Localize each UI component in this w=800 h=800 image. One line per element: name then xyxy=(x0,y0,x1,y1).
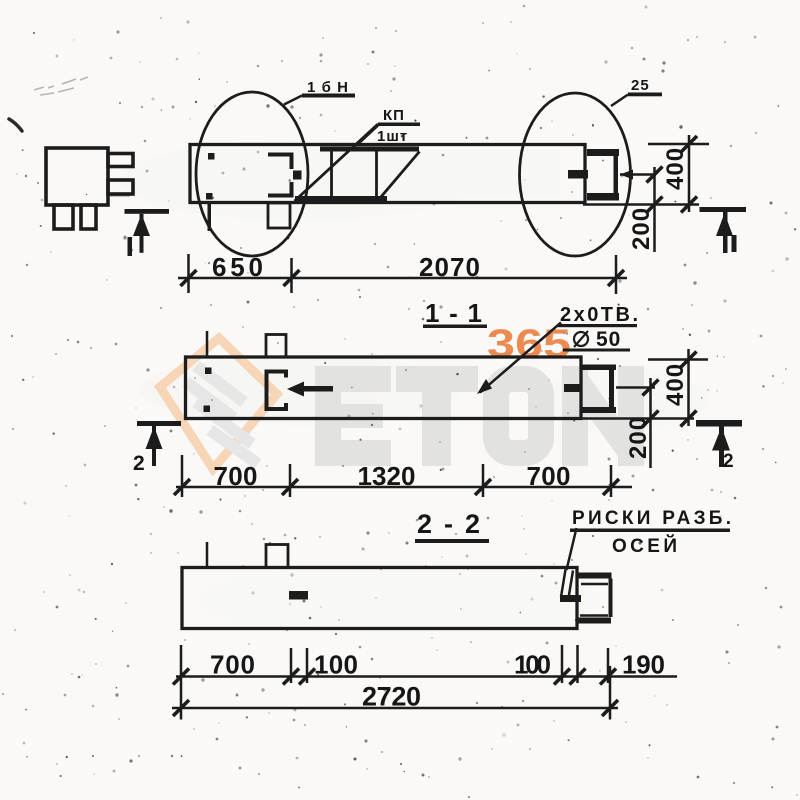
plan view: KP console plate xyxy=(295,147,420,202)
svg-text:2070: 2070 xyxy=(419,252,481,282)
svg-text:25: 25 xyxy=(631,77,650,94)
plan view: beam outline xyxy=(190,145,585,203)
1-1 dims 700/1320/700 xyxy=(174,455,632,497)
faint scribble top-left xyxy=(34,77,88,95)
plan view: notch below beam xyxy=(268,203,290,228)
section mark 2 right xyxy=(696,420,742,472)
svg-text:700: 700 xyxy=(527,461,572,491)
svg-text:365: 365 xyxy=(487,322,571,366)
label KP 1sht xyxy=(377,107,420,145)
plan view: callout ellipse left xyxy=(196,92,308,256)
svg-text:2 - 2: 2 - 2 xyxy=(417,509,481,539)
2-2 dims 700/100/100/190 xyxy=(173,645,677,720)
1-1 left bracket xyxy=(267,372,287,410)
plan view: right end plate xyxy=(568,149,619,201)
svg-text:700: 700 xyxy=(210,650,256,680)
svg-text:2: 2 xyxy=(723,451,735,472)
dark squiggle top-left xyxy=(9,119,22,131)
plan view: left end rebar dots xyxy=(206,153,215,200)
dim 400 right of plan xyxy=(583,135,709,213)
2-2 top notch xyxy=(266,545,288,568)
1-1 rebar dots xyxy=(204,368,212,413)
svg-text:700: 700 xyxy=(214,461,259,491)
2-2 ext line above left xyxy=(206,542,209,567)
svg-text:400: 400 xyxy=(662,147,689,190)
1-1 top notch xyxy=(266,335,286,358)
svg-text:1бН: 1бН xyxy=(307,79,349,96)
title 2-2 xyxy=(415,509,489,543)
watermark: ETON hexagon logo xyxy=(160,338,277,469)
svg-text:1320: 1320 xyxy=(358,461,417,491)
svg-text:2: 2 xyxy=(133,452,146,475)
svg-text:100: 100 xyxy=(314,650,359,680)
watermark: ETON letters xyxy=(315,366,644,466)
svg-text:190: 190 xyxy=(622,650,666,680)
2-2 bold dash xyxy=(289,591,308,600)
svg-text:200: 200 xyxy=(625,416,652,459)
label 2xOTV d50 xyxy=(558,304,639,352)
svg-text:400: 400 xyxy=(662,363,689,406)
plan dims 650 / 2070 xyxy=(178,254,627,294)
label riski razb osey xyxy=(570,508,732,557)
section mark 1 right xyxy=(700,207,747,253)
1-1 ext line above left xyxy=(206,331,209,357)
svg-text:1 - 1: 1 - 1 xyxy=(425,298,483,328)
plan view: left end bracket xyxy=(268,155,292,170)
leader to hole xyxy=(480,323,561,393)
svg-text:КП: КП xyxy=(383,107,405,124)
2-2 right end plate xyxy=(576,573,613,624)
svg-text:650: 650 xyxy=(212,252,264,282)
svg-text:2720: 2720 xyxy=(362,682,422,712)
section mark 1 left xyxy=(125,209,170,256)
1-1 bold arrow left xyxy=(287,382,333,397)
2-2 overall dim 2720 xyxy=(172,666,618,720)
label 25 top right xyxy=(628,77,662,96)
plan view: callout ellipse right xyxy=(520,93,631,256)
2-2 riska tilted mark xyxy=(560,570,581,603)
plan view: leg below beam xyxy=(208,203,212,231)
small end-view square xyxy=(46,148,133,229)
svg-text:200: 200 xyxy=(628,207,655,250)
leader to riska xyxy=(567,528,577,570)
label 1bN top xyxy=(302,79,355,98)
svg-text:1шт: 1шт xyxy=(377,128,408,145)
leader to KP label xyxy=(295,124,379,201)
1-1 dim 400 xyxy=(581,349,708,427)
section mark 2 left xyxy=(133,421,181,475)
svg-text:100: 100 xyxy=(514,650,552,680)
svg-text:50: 50 xyxy=(596,328,621,351)
2-2 beam outline xyxy=(182,568,577,629)
title 1-1 xyxy=(423,298,487,328)
dim 200 right of plan xyxy=(647,167,663,253)
plan view: small black square xyxy=(293,171,302,180)
1-1 right end plate xyxy=(564,365,616,414)
mid-height leader with arrow xyxy=(620,173,656,176)
1-1 beam outline xyxy=(186,357,582,419)
1-1 dim 200 xyxy=(616,378,659,468)
